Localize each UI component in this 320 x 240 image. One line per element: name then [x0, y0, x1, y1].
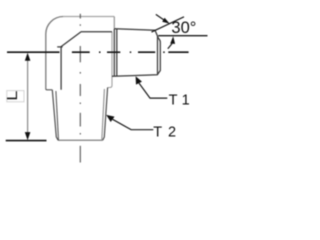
svg-text:T2: T2 [153, 125, 176, 141]
svg-text:T1: T1 [169, 93, 190, 109]
svg-text:L: L [5, 91, 21, 101]
svg-text:30°: 30° [171, 19, 196, 37]
